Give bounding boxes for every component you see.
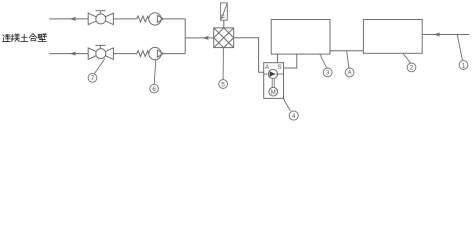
callout circle 5 xyxy=(219,80,228,89)
connecting pipe between tanks, node A xyxy=(330,50,363,52)
label text 连接土仓壁 xyxy=(3,34,47,42)
callout circle 4 xyxy=(289,111,298,120)
inlet flow arrow xyxy=(434,32,440,36)
svg-text:3: 3 xyxy=(326,70,330,77)
pump unit box, item 4 xyxy=(264,63,284,99)
ball valve bottom, item 7 xyxy=(88,45,113,59)
motor shaft xyxy=(272,79,274,88)
pump circle with rotor triangle xyxy=(268,69,283,78)
pump discharge wire to tank 3 xyxy=(284,54,297,68)
silencer / vent symbol above distributor xyxy=(221,3,228,20)
callout circle 2 xyxy=(407,63,416,72)
callout circle 1 xyxy=(459,61,468,70)
svg-text:5: 5 xyxy=(221,81,225,88)
manifold bus wire xyxy=(184,19,186,54)
bottom line flow arrow xyxy=(70,52,76,56)
inlet wire at right xyxy=(422,34,469,36)
motor M circle xyxy=(269,87,278,96)
leader to label 2 xyxy=(403,53,411,63)
leader to label 7 xyxy=(94,59,105,74)
svg-text:4: 4 xyxy=(292,113,296,120)
leader to label 3 xyxy=(320,54,327,68)
callout circle 3 xyxy=(323,68,332,77)
bottom pipeline wire xyxy=(49,53,185,55)
wire tank 3 down to pump box xyxy=(277,54,279,63)
leader to label 6 xyxy=(154,60,156,84)
char 仓 xyxy=(29,34,36,41)
branch wire to distributor xyxy=(185,37,214,39)
leader to label A xyxy=(347,51,349,68)
svg-text:7: 7 xyxy=(91,75,95,82)
svg-text:A: A xyxy=(348,71,352,77)
char 壁 xyxy=(38,34,46,42)
char 土 xyxy=(21,34,28,41)
svg-text:M: M xyxy=(271,90,276,96)
top pipeline wire xyxy=(49,18,185,20)
spring check valve top (item 6 type) xyxy=(137,13,164,25)
svg-text:S: S xyxy=(278,65,282,71)
wire distributor right to pump unit xyxy=(234,38,264,73)
distributor block (item 5 type), square with X and diamond xyxy=(214,28,234,48)
spring check valve bottom, item 6 xyxy=(137,47,164,59)
svg-text:2: 2 xyxy=(410,65,414,72)
additive tank, box item 3 xyxy=(271,20,330,55)
callout circle 7 xyxy=(88,73,97,82)
callout circle 6 xyxy=(150,84,159,93)
char 接 xyxy=(11,34,20,42)
storage tank, box item 2 xyxy=(363,20,422,54)
wire distributor down to label 5 xyxy=(222,48,224,80)
svg-text:1: 1 xyxy=(462,62,466,69)
ball valve top (item 7 type) xyxy=(88,11,113,25)
callout circle A xyxy=(345,68,354,77)
top line flow arrow xyxy=(70,17,76,21)
branch flow arrow xyxy=(203,36,209,40)
char 连 xyxy=(3,34,10,41)
wire silencer to distributor xyxy=(223,20,225,28)
svg-text:A: A xyxy=(265,65,269,71)
svg-text:6: 6 xyxy=(152,86,156,93)
leader to label 1 xyxy=(457,35,462,61)
pump suction wire xyxy=(264,73,269,75)
leader to label 4 xyxy=(283,98,290,111)
